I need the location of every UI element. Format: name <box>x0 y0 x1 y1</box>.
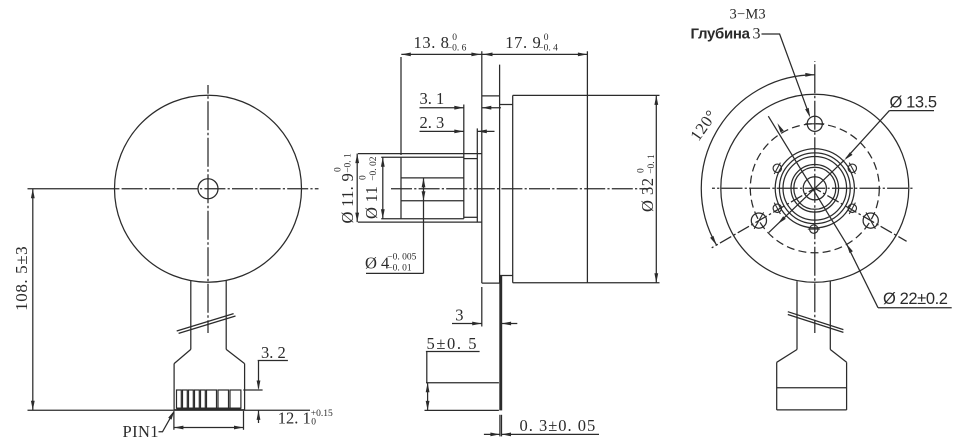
middle view: body top edge <box>513 94 588 96</box>
svg-text:3. 1: 3. 1 <box>420 89 445 108</box>
middle view: collar front line / extension at x=477.3 <box>476 128 478 222</box>
left view: horizontal centerline <box>28 188 120 190</box>
dimension 5±0.5: underline <box>426 351 480 353</box>
middle view: shaft hub front face <box>400 157 402 219</box>
svg-text:12. 1: 12. 1 <box>278 408 311 427</box>
left view: cable flare right <box>226 349 244 363</box>
right view: horizontal centerline <box>712 187 913 189</box>
left view: center hole circle <box>198 179 218 199</box>
middle view: neck groove top edge <box>500 104 513 106</box>
svg-text:17. 9: 17. 9 <box>505 33 541 52</box>
svg-text:Ø 13.5: Ø 13.5 <box>890 94 937 112</box>
right view: radial centerline 210° <box>712 188 815 248</box>
middle view: groove bottom edge <box>464 216 478 218</box>
middle view: body bottom edge <box>513 282 588 284</box>
svg-text:Ø 22±0.2: Ø 22±0.2 <box>883 290 948 308</box>
svg-text:3: 3 <box>753 26 761 43</box>
dimension 12.1: dimension line with arrows <box>174 427 244 429</box>
middle view: flange front face + extensions <box>481 51 483 283</box>
right view: cable ribbon right edge <box>829 281 831 350</box>
left view: connector left side <box>173 364 175 410</box>
right view: vertical centerline <box>814 61 816 333</box>
middle view: horizontal centerline <box>391 188 648 190</box>
right view: 4 small screw circles on boss ring <box>773 164 781 172</box>
svg-text:0: 0 <box>544 33 549 43</box>
dimension 2.3: left line with arrow <box>420 130 464 132</box>
right view: connector divider line <box>777 387 847 389</box>
dimension 3.1: right arrow with tail <box>482 107 501 109</box>
dimension Ø4: leader to label <box>423 201 425 274</box>
left view: cable flare left <box>174 349 191 363</box>
dimension 3.2: lower extension line <box>243 409 310 411</box>
dimension 108.5±3: dimension line <box>32 189 34 411</box>
middle view: groove top edge <box>464 158 478 160</box>
svg-text:Глубина: Глубина <box>691 26 751 43</box>
right view: shaft bore circle Ø4 <box>803 177 826 200</box>
middle view: Ø4 bore top line <box>401 177 464 179</box>
svg-text:0: 0 <box>452 33 457 43</box>
middle view: body front face <box>512 95 514 282</box>
svg-text:−0. 1: −0. 1 <box>344 153 354 173</box>
middle view: flange top edge <box>482 95 500 97</box>
svg-text:Ø 32: Ø 32 <box>638 177 657 212</box>
svg-text:3. 2: 3. 2 <box>261 343 286 362</box>
dimension Ø4: label underline <box>366 272 424 274</box>
right view: cable ribbon left edge <box>796 281 798 349</box>
svg-text:Ø 4: Ø 4 <box>365 253 389 272</box>
middle view: body back face + extension up <box>586 51 588 282</box>
svg-text:−0. 1: −0. 1 <box>647 154 657 174</box>
label PIN1: leader line with arrow <box>159 413 174 432</box>
svg-text:0: 0 <box>333 167 343 172</box>
svg-text:108. 5±3: 108. 5±3 <box>12 246 31 311</box>
svg-text:0: 0 <box>637 168 647 173</box>
svg-text:Ø 11: Ø 11 <box>362 186 381 219</box>
right view: body outline circle Ø32 <box>721 94 909 282</box>
dimension Ø11: dimension line with arrows <box>382 157 384 219</box>
right view: connector bottom edge <box>777 409 847 411</box>
middle view: collar Ø11.9 top edge + extension <box>358 153 482 155</box>
right view: connector right side <box>846 362 848 410</box>
right view: M3 hole top <box>807 116 822 131</box>
dimension 3: right arrow with tail <box>502 323 518 325</box>
left view: connector right side <box>244 364 246 410</box>
svg-text:3−M3: 3−M3 <box>730 7 766 23</box>
dimension 0.3±0.05: right arrow with tail <box>502 433 600 435</box>
dimension 0.3±0.05: extension lines <box>499 415 501 437</box>
left view: connector pin cells <box>177 390 182 408</box>
right view: M3 hole lower-right <box>863 213 878 228</box>
svg-text:13. 8: 13. 8 <box>414 33 450 52</box>
middle view: cable edge-on thick band <box>499 276 502 411</box>
left view: encoder body front outline circle Ø32 <box>115 95 302 282</box>
middle view: hub Ø11 top edge + extension <box>381 156 464 158</box>
middle view: flange back face + extension above <box>499 65 501 284</box>
dimension 3.2: leader down with arrow <box>258 361 260 389</box>
dimension Ø22±0.2: leader with arrow <box>847 244 879 308</box>
right view: bolt circle Ø22 dashed <box>750 124 879 253</box>
dimension 3: left line with arrow <box>452 323 482 325</box>
dimension 0.3±0.05: left line with arrow <box>484 433 500 435</box>
right view: boss ring circle 3 <box>783 157 847 221</box>
left view: cable ribbon left edge <box>190 281 192 350</box>
svg-text:PIN1: PIN1 <box>123 422 159 441</box>
dimension Ø13.5: underline <box>889 110 934 112</box>
dimension 120°: arc with arrows <box>701 75 815 245</box>
dimension Ø4: measure arrows inside bore <box>423 178 425 201</box>
right view: cable flare left <box>777 350 797 363</box>
svg-text:0: 0 <box>311 418 316 428</box>
svg-text:2. 3: 2. 3 <box>420 113 445 132</box>
svg-text:−0. 6: −0. 6 <box>447 43 467 53</box>
left view: vertical centerline <box>207 85 209 333</box>
right view: cable flare right <box>830 350 846 363</box>
middle view: step line / extension at x=463.8 <box>463 105 465 219</box>
svg-text:5±0. 5: 5±0. 5 <box>427 334 479 353</box>
svg-text:3: 3 <box>455 305 463 324</box>
middle view: cable end tick <box>425 409 499 411</box>
dimension 12.1: extension lines <box>173 411 175 430</box>
middle view: Ø4 bore bottom line <box>401 200 464 202</box>
middle view: connector start tick <box>426 382 499 384</box>
right view: cable break symbol line 1 <box>788 312 844 330</box>
right view: connector left side <box>776 362 778 410</box>
right view: hub circle outer <box>791 165 839 213</box>
dimension Ø13.5: diameter line across boss with far arrow <box>769 160 844 232</box>
svg-text:0. 3±0. 05: 0. 3±0. 05 <box>520 416 597 435</box>
dimension 3.2: lower arrow <box>258 410 260 423</box>
left view: cable break symbol line 1 <box>177 314 234 331</box>
middle view: neck groove bottom edge <box>500 275 513 277</box>
dimension 13.8/17.9: dimension line <box>401 53 587 55</box>
dimension 3.2: label underline <box>258 360 288 362</box>
dimension Ø11.9: dimension line with arrows <box>356 154 358 223</box>
right view: radial centerline 330° <box>815 188 907 241</box>
right view: cable break symbol line 2 <box>788 315 844 333</box>
right view: hub circle inner <box>794 167 836 209</box>
dimension 108.5±3: bottom extension line <box>28 409 244 411</box>
dimension Ø22±0.2: diameter line across bolt circle with far arrow <box>768 116 846 244</box>
dimension 3.2: upper extension line <box>243 389 262 391</box>
dimension 5±0.5: leader + dimension line with arrows <box>426 352 428 383</box>
middle view: flange bottom edge <box>482 282 500 284</box>
right view: small screw circle at boss bottom <box>810 225 818 233</box>
dimension Ø22±0.2: underline <box>878 307 952 309</box>
dimension 2.3: right arrow with tail <box>477 130 494 132</box>
label Глубина 3: leader with arrow to top M3 hole <box>762 34 810 115</box>
right view: M3 hole lower-left <box>751 213 766 228</box>
dimension Ø32: dimension line with arrows <box>655 95 657 282</box>
dimension Ø32: bottom extension line <box>587 282 659 284</box>
right view: boss outer ring circle Ø13.5 <box>775 149 854 228</box>
svg-text:−0. 01: −0. 01 <box>387 263 412 273</box>
svg-text:Ø 11. 9: Ø 11. 9 <box>338 173 357 224</box>
middle view: collar Ø11.9 bottom edge + extension <box>358 221 482 223</box>
svg-text:−0. 4: −0. 4 <box>538 43 558 53</box>
dimension 13.8: extension line down to hub <box>400 57 402 155</box>
svg-text:−0. 02: −0. 02 <box>369 156 379 181</box>
right view: boss ring circle 2 <box>779 153 850 224</box>
left view: connector pin row bottom bar <box>177 408 241 410</box>
middle view: hub Ø11 bottom edge + extension <box>381 218 464 220</box>
left view: cable ribbon right edge <box>225 281 227 350</box>
left view: cable break symbol line 2 <box>179 316 236 333</box>
dimension 3.1: left line with arrow <box>420 107 464 109</box>
dimension Ø32: top extension line <box>587 94 659 96</box>
dimension Ø13.5: leader with arrow <box>846 111 889 159</box>
left view: connector bottom edge <box>174 409 245 411</box>
svg-text:0: 0 <box>359 175 369 180</box>
svg-text:−0. 005: −0. 005 <box>387 253 416 263</box>
